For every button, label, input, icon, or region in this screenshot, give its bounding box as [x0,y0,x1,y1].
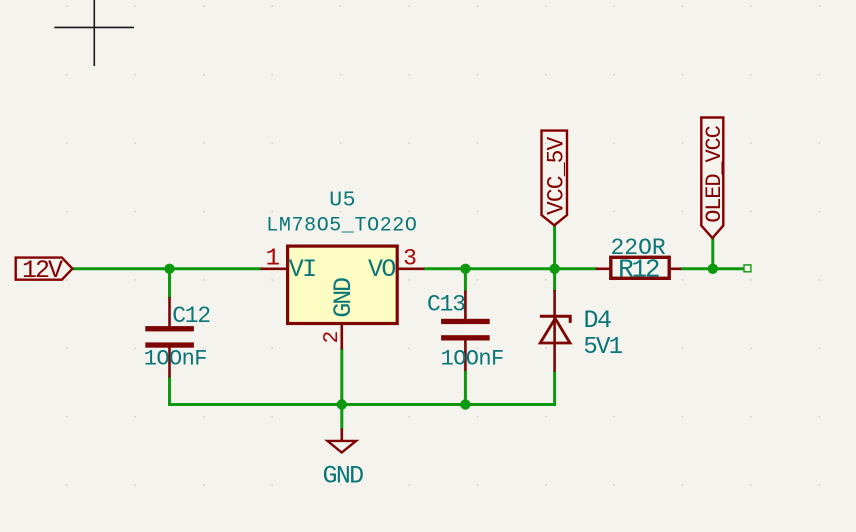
svg-text:GND: GND [329,278,358,318]
svg-text:OLED_VCC: OLED_VCC [702,125,727,222]
svg-text:2: 2 [321,331,344,344]
svg-text:1: 1 [266,246,280,273]
svg-text:1OOnF: 1OOnF [441,347,504,372]
svg-text:VO: VO [368,255,395,284]
svg-text:12V: 12V [22,256,63,285]
svg-text:5V1: 5V1 [583,334,622,361]
svg-text:D4: D4 [584,306,612,335]
svg-text:C12: C12 [172,303,210,329]
svg-text:VCC_5V: VCC_5V [543,136,569,215]
svg-text:VI: VI [289,255,316,284]
svg-text:LM78O5_TO22O: LM78O5_TO22O [266,214,417,237]
svg-text:1OOnF: 1OOnF [144,347,207,372]
svg-text:U5: U5 [329,188,356,212]
svg-text:GND: GND [323,462,364,491]
svg-text:R12: R12 [618,255,659,285]
svg-text:C13: C13 [427,291,465,317]
svg-text:3: 3 [403,245,417,271]
